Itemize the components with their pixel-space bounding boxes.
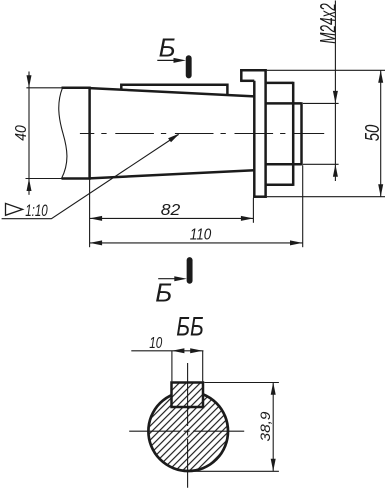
svg-text:M24x2: M24x2 (316, 3, 340, 44)
extension line top-left of d40 (26, 87, 63, 89)
svg-text:50: 50 (361, 125, 384, 142)
section mark bottom arrow line (158, 278, 179, 280)
nut bottom edge (266, 184, 294, 187)
arrowheads (27, 58, 384, 281)
dimension 38,9 line (272, 382, 274, 471)
taper leader underline (2, 135, 179, 219)
taper start vertical edge (88, 87, 91, 180)
dimension 10 line (131, 350, 203, 352)
dimension 82 line (90, 217, 254, 219)
svg-text:10: 10 (149, 335, 162, 352)
section mark bottom thick bar (187, 260, 193, 281)
extension line below washer left (252, 198, 254, 223)
nut right edge (292, 82, 295, 186)
svg-text:Б: Б (155, 278, 172, 308)
washer left edge (253, 81, 256, 198)
arrow d40 bottom (outside, pointing up) (27, 179, 32, 192)
extension line for 50 top (267, 69, 385, 71)
key on taper (121, 85, 227, 96)
washer bottom edge (253, 195, 267, 198)
svg-text:82: 82 (161, 202, 181, 219)
arrow 82 right (241, 216, 254, 221)
extension line 38,9 bottom (190, 470, 279, 472)
extension line keyway right (202, 351, 204, 382)
dimension 40 line (28, 72, 30, 195)
shaft section circle (148, 391, 228, 471)
section mark top thick bar (186, 58, 192, 75)
arrow 10 left (172, 348, 185, 353)
extension line for M24x2 top (303, 102, 339, 104)
dimension M24x2 leader line (334, 1, 336, 182)
extension line below nose end (302, 165, 304, 247)
taper top edge (90, 88, 255, 96)
arrow 50 top (378, 70, 383, 83)
svg-text:Б: Б (159, 33, 176, 63)
extension line below taper start (89, 180, 91, 248)
dimension 110 line (90, 242, 303, 244)
nut top edge (266, 82, 294, 85)
extension line 38,9 top (204, 382, 279, 384)
arrow section mark top (174, 58, 187, 63)
nose bottom edge (266, 163, 302, 166)
arrow M24x2 upper (pointing down) (333, 91, 338, 104)
slotted nut outline (266, 82, 294, 186)
washer right edge (264, 69, 267, 198)
svg-text:1:10: 1:10 (25, 202, 48, 220)
arrow d40 top (outside, pointing down) (27, 75, 32, 88)
shaft cylindrical part bottom edge (62, 177, 91, 180)
washer top tab bottom edge (240, 80, 254, 83)
main axis centerline (80, 133, 324, 135)
nose right end edge (300, 102, 303, 165)
dimension 50 line (380, 70, 382, 196)
extension line for M24x2 bottom (303, 163, 339, 165)
section horizontal centerline (129, 430, 246, 432)
arrow 10 right (190, 348, 203, 353)
arrow 38,9 top (271, 382, 276, 395)
svg-text:110: 110 (190, 226, 212, 243)
svg-text:ББ: ББ (176, 312, 204, 342)
arrow 38,9 bottom (271, 459, 276, 472)
svg-text:38,9: 38,9 (258, 411, 273, 442)
key section rectangle (172, 383, 204, 408)
arrow 82 left (90, 216, 103, 221)
lock washer outline (240, 69, 267, 198)
svg-text:40: 40 (13, 125, 30, 141)
arrow M24x2 lower (pointing up) (333, 164, 338, 177)
washer top edge (240, 69, 267, 72)
arrow 110 right (290, 240, 303, 245)
extension line bottom-left of d40 (26, 178, 64, 180)
extension line keyway left (171, 351, 173, 382)
arrow 110 left (90, 240, 103, 245)
arrow 50 bottom (378, 184, 383, 197)
taper symbol triangle (6, 203, 23, 215)
taper bottom edge (90, 170, 255, 178)
threaded nose outline (266, 102, 302, 165)
section mark top arrow line (157, 59, 178, 61)
washer top tab left edge (240, 69, 243, 81)
shaft cylindrical part top edge (62, 87, 91, 90)
hatching of shaft section and key (140, 383, 236, 480)
break (wavy) line (59, 88, 67, 179)
extension line for 50 bottom (267, 196, 385, 198)
section vertical centerline (187, 363, 189, 488)
arrow taper leader (168, 133, 180, 142)
nose top edge (266, 102, 302, 105)
arrow section mark bottom (174, 276, 187, 281)
